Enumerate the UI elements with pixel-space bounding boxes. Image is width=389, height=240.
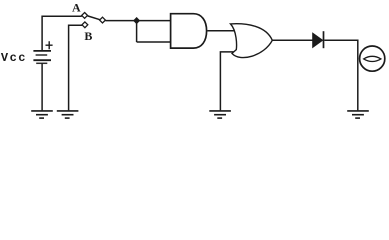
ground under contact B (57, 111, 79, 118)
wire to AND lower input (137, 41, 171, 43)
svg-text:B: B (84, 29, 92, 43)
wire pole to AND upper input (105, 20, 170, 22)
switch S1 contact A diamond (82, 13, 88, 19)
battery V1 plate3 long (33, 59, 51, 61)
lamp L1 circle (360, 46, 385, 71)
svg-text:A: A (72, 1, 81, 15)
AND gate U1 (171, 14, 207, 48)
ground under OR (209, 111, 231, 118)
wire OR lower input to ground (220, 52, 233, 111)
battery V1 plate4 short (36, 62, 47, 64)
svg-text:Vcc: Vcc (1, 51, 27, 65)
junction node (134, 18, 140, 24)
switch S1 blade (88, 16, 100, 20)
switch S1 pole diamond (100, 17, 106, 23)
wire OR output to diode (272, 39, 312, 41)
diode D1 triangle (313, 33, 323, 47)
lamp L1 lens (364, 56, 381, 61)
OR gate U2 (231, 24, 273, 58)
battery V1 plate2 short (36, 54, 48, 56)
ground under battery (31, 111, 53, 118)
battery plus sign (46, 41, 53, 49)
wire diode to corner and down to ground (324, 40, 358, 110)
wire AND output to OR upper input (207, 30, 235, 32)
wire contact B to ground (69, 25, 82, 110)
diode D1 cathode bar (323, 31, 325, 48)
wire junction down (136, 21, 138, 42)
wire battery to ground (41, 63, 43, 110)
switch S1 contact B diamond (82, 22, 88, 28)
battery V1 plate1 long (33, 50, 51, 52)
ground under lamp (347, 111, 369, 118)
wire Vcc riser and top horizontal to contact A (42, 16, 82, 50)
